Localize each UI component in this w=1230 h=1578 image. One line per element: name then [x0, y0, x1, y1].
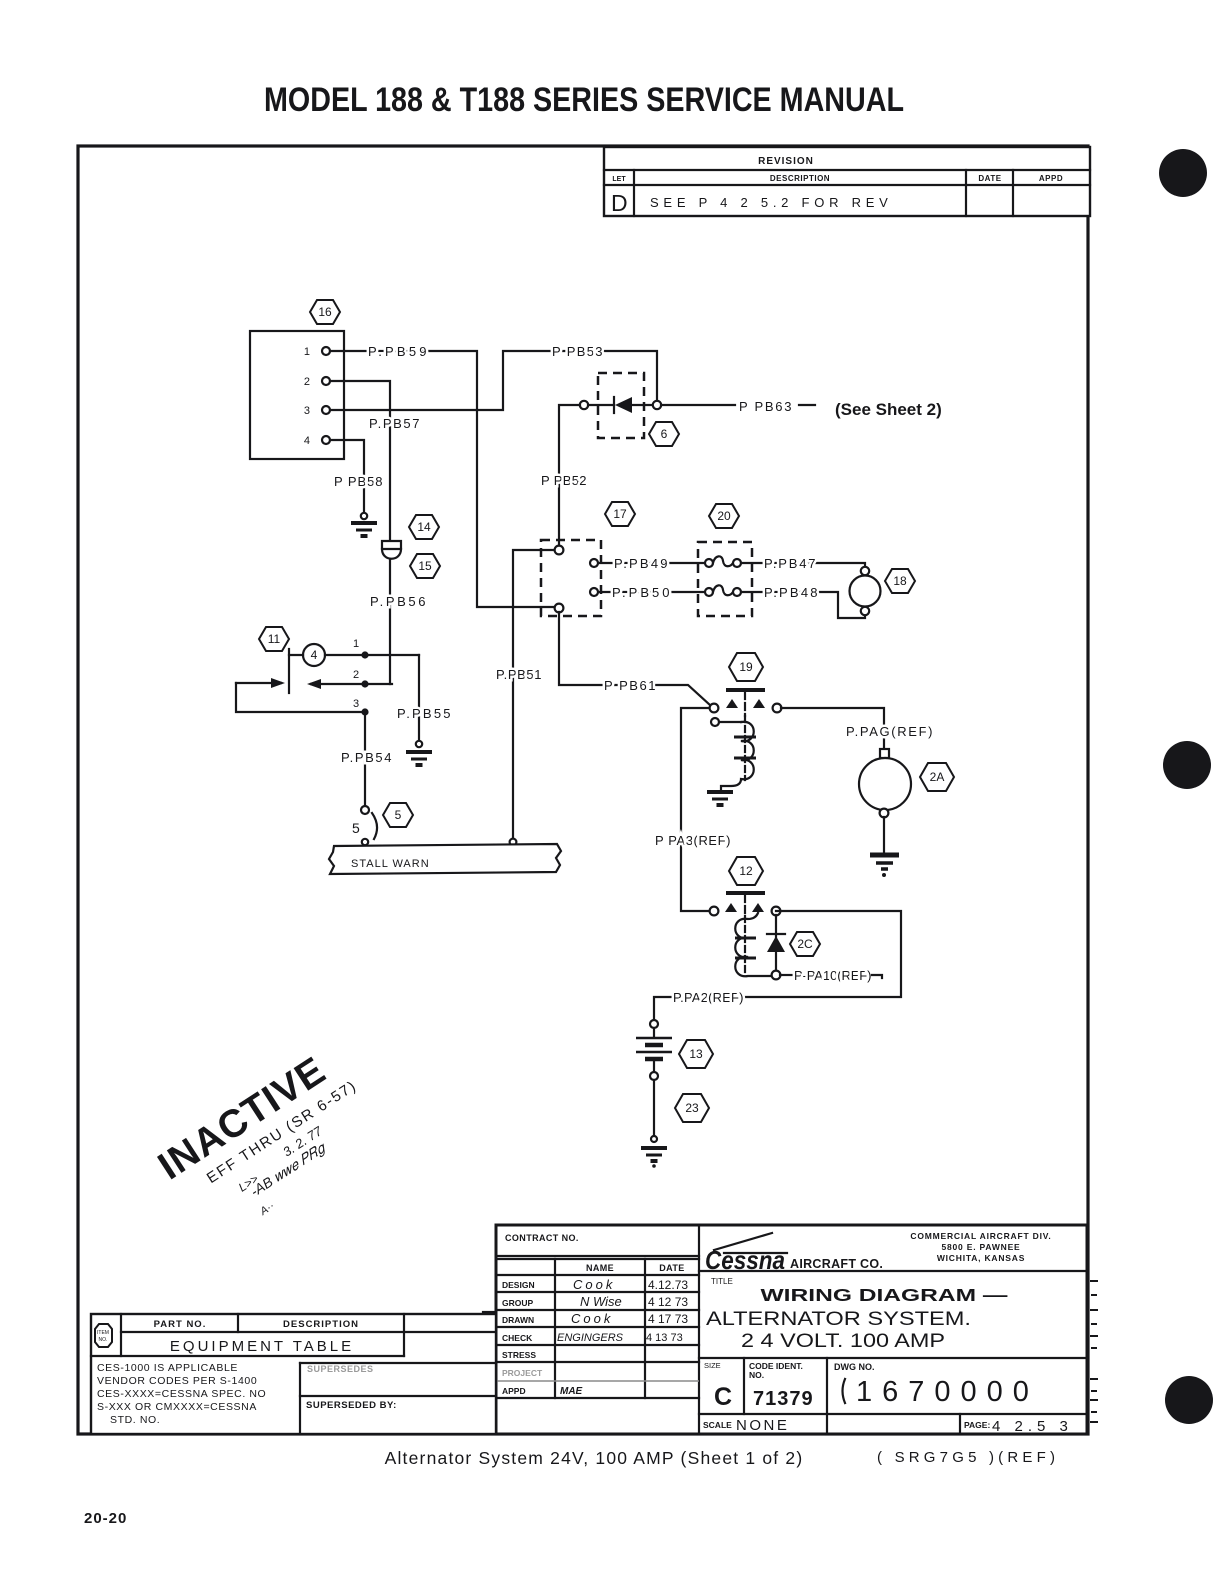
check row [502, 1332, 683, 1344]
svg-text:D: D [611, 190, 628, 216]
Cessna logo [705, 1233, 883, 1275]
svg-text:P PB61: P PB61 [604, 678, 656, 693]
switch 11 marker circle 4 [303, 644, 325, 666]
svg-text:6: 6 [661, 427, 668, 441]
title cell [706, 1277, 1008, 1352]
code ident cell [749, 1358, 827, 1414]
svg-text:DATE: DATE [659, 1263, 684, 1273]
fuse lower [705, 585, 741, 596]
svg-text:71379: 71379 [753, 1388, 814, 1410]
svg-text:P.PB56: P.PB56 [370, 594, 426, 609]
svg-text:MODEL 188 & T188 SERIES SERVIC: MODEL 188 & T188 SERIES SERVICE MANUAL [264, 81, 904, 119]
callout 5 [383, 803, 413, 827]
switch 11 arrow from terminal 2 [307, 679, 365, 689]
svg-text:20: 20 [717, 509, 731, 523]
svg-text:DESCRIPTION: DESCRIPTION [283, 1319, 359, 1330]
svg-text:DATE: DATE [978, 174, 1001, 183]
wire P-PB54 to stall warn [341, 716, 392, 806]
svg-text:2A: 2A [930, 770, 945, 784]
svg-text:REVISION: REVISION [758, 156, 814, 167]
wire P-PB52 diode to terminal block 17 [541, 405, 587, 546]
svg-text:NO.: NO. [99, 1337, 108, 1343]
stall warn pigtail contact [352, 806, 377, 845]
INACTIVE stamp [151, 1039, 390, 1251]
svg-text:CES-XXXX=CESSNA SPEC. NO: CES-XXXX=CESSNA SPEC. NO [97, 1388, 266, 1400]
diode 2C across relay 12 coil [767, 915, 785, 971]
svg-text:13: 13 [689, 1047, 703, 1061]
callout 20 [709, 504, 739, 528]
svg-text:P PA3(REF): P PA3(REF) [655, 833, 731, 848]
terminal block 17 bottom terminal [555, 604, 564, 613]
svg-text:NAME: NAME [586, 1263, 614, 1273]
diode item 6 dashed enclosure [598, 373, 644, 438]
callout 2C [790, 932, 820, 956]
svg-text:5800 E. PAWNEE: 5800 E. PAWNEE [941, 1242, 1020, 1252]
relay 19 coil ground [707, 792, 733, 805]
callout 18 [885, 569, 915, 593]
svg-text:ITEM: ITEM [97, 1330, 109, 1336]
svg-text:1670000: 1670000 [856, 1376, 1039, 1408]
relay 19 coil [721, 716, 756, 790]
svg-text:1: 1 [304, 346, 310, 358]
connector 16 callout [310, 300, 340, 324]
svg-text:SIZE: SIZE [704, 1361, 721, 1370]
relay 12 contact bar [726, 891, 765, 895]
division address [910, 1231, 1051, 1263]
cigarette lighter item 18 [850, 567, 881, 615]
relay 12 right terminal [772, 907, 781, 916]
callout 12 [729, 857, 763, 885]
svg-text:P PB52: P PB52 [541, 473, 587, 488]
filter capacitor item 14/15 [382, 541, 401, 559]
contract no cell [496, 1233, 699, 1256]
relay 12 coil terminal [772, 971, 781, 980]
svg-text:WICHITA, KANSAS: WICHITA, KANSAS [937, 1253, 1025, 1263]
diode item 6 [580, 397, 661, 413]
svg-text:4: 4 [304, 435, 310, 447]
wire P-PB61 block 17 to relay 19 [559, 612, 711, 706]
callout 14 [409, 515, 439, 539]
appd row [502, 1386, 583, 1397]
svg-text:15: 15 [418, 559, 432, 573]
svg-text:SEE P 4 2 5.2 FOR REV: SEE P 4 2 5.2 FOR REV [650, 195, 890, 210]
svg-text:23: 23 [685, 1101, 699, 1115]
callout 13 [679, 1040, 713, 1068]
relay 12 armature stem [744, 895, 746, 914]
svg-text:COMMERCIAL AIRCRAFT DIV.: COMMERCIAL AIRCRAFT DIV. [910, 1231, 1051, 1241]
switch 11 arrow left feed [236, 678, 285, 688]
switch 11 terminal 1 [325, 638, 419, 659]
svg-text:DWG NO.: DWG NO. [834, 1362, 875, 1372]
svg-text:14: 14 [417, 520, 431, 534]
svg-text:P.PB54: P.PB54 [341, 750, 392, 765]
scale cell [703, 1414, 827, 1434]
svg-text:EQUIPMENT TABLE: EQUIPMENT TABLE [170, 1338, 354, 1355]
svg-text:SUPERSEDED BY:: SUPERSEDED BY: [306, 1400, 397, 1411]
svg-text:STRESS: STRESS [502, 1350, 536, 1360]
svg-text:2 4 VOLT. 100 AMP: 2 4 VOLT. 100 AMP [741, 1331, 945, 1352]
relay 12 coil [735, 913, 770, 976]
callout 2A [920, 763, 954, 791]
equipment table [91, 1314, 496, 1434]
switch 11 terminal 3 [353, 698, 369, 716]
wire P-PB59 pin1 to terminal block 17 [330, 344, 554, 607]
binder hole top [1159, 149, 1207, 197]
svg-text:CHECK: CHECK [502, 1333, 533, 1343]
connector 16 pin 1 [304, 346, 330, 358]
callout 17 [605, 502, 635, 526]
svg-text:18: 18 [893, 574, 907, 588]
revision table [604, 147, 1090, 216]
switch 11 terminal 2 [353, 669, 392, 688]
svg-text:Cook: Cook [573, 1277, 615, 1292]
wire P-PB49 [590, 556, 704, 571]
page cell [960, 1414, 1073, 1435]
connector 16 pin 3 [304, 405, 330, 417]
wire P-PA3 relay 19 to relay 12 [655, 708, 731, 911]
wire P-PB50 [590, 585, 704, 600]
relay 19 armature stem [744, 692, 746, 716]
switch 11 callout [259, 627, 289, 651]
svg-text:3: 3 [304, 405, 310, 417]
wire P-PA10 label [780, 968, 882, 983]
svg-text:STALL WARN: STALL WARN [351, 858, 430, 870]
stall warn unit [329, 844, 561, 874]
wire P-PB51 to stall warn [496, 550, 554, 845]
svg-text:STD. NO.: STD. NO. [110, 1414, 160, 1426]
name date header [496, 1259, 699, 1398]
svg-text:PART NO.: PART NO. [154, 1319, 207, 1330]
wire P-PB48 [741, 585, 865, 618]
svg-text:DESCRIPTION: DESCRIPTION [770, 174, 830, 183]
svg-text:4 17 73: 4 17 73 [648, 1312, 688, 1326]
svg-text:P-PA10(REF): P-PA10(REF) [794, 968, 872, 983]
svg-text:P.PB57: P.PB57 [369, 416, 420, 431]
fuse upper [705, 556, 741, 567]
svg-text:SUPERSEDES: SUPERSEDES [307, 1364, 374, 1374]
svg-text:TITLE: TITLE [711, 1277, 733, 1286]
svg-text:DRAWN: DRAWN [502, 1315, 534, 1325]
relay 12 fixed contacts [725, 903, 764, 912]
connector 16 pin 4 [304, 435, 330, 447]
svg-text:ENGINGERS: ENGINGERS [557, 1332, 624, 1344]
svg-text:NO.: NO. [749, 1370, 764, 1380]
vendor codes note [97, 1362, 266, 1426]
relay 12 left terminal [710, 907, 719, 916]
svg-text:5: 5 [352, 820, 360, 836]
callout 19 [729, 653, 763, 681]
relay 19 right terminal [773, 704, 782, 713]
relay 19 coil terminal [711, 718, 741, 726]
callout 15 [410, 554, 440, 578]
svg-text:MAE: MAE [560, 1386, 583, 1397]
svg-text:2C: 2C [797, 937, 813, 951]
svg-text:WIRING DIAGRAM —: WIRING DIAGRAM — [761, 1285, 1009, 1305]
wire P-PB57 pin2 to filter [330, 381, 420, 539]
relay 19 contact bar [726, 688, 765, 692]
dwg no cell [834, 1362, 1039, 1408]
svg-text:P PB58: P PB58 [334, 474, 383, 489]
relay 19 fixed contacts [726, 699, 765, 708]
svg-text:2: 2 [353, 669, 359, 681]
wire P-PB63 to sheet 2 [661, 399, 815, 414]
binder hole bottom [1165, 1376, 1213, 1424]
svg-text:DESIGN: DESIGN [502, 1280, 535, 1290]
svg-text:Alternator System 24V, 100 AMP: Alternator System 24V, 100 AMP (Sheet 1 … [385, 1448, 804, 1468]
wire relay 12 to battery [654, 911, 901, 1020]
title block [483, 1225, 1098, 1435]
svg-text:Cook: Cook [571, 1311, 613, 1326]
supersedes cell [300, 1363, 496, 1434]
size cell [704, 1358, 744, 1414]
wire switch feed loop [236, 683, 361, 712]
svg-text:P PB53: P PB53 [552, 344, 603, 359]
svg-text:5: 5 [395, 808, 402, 822]
svg-text:P.PB51: P.PB51 [496, 667, 542, 682]
svg-text:4 12 73: 4 12 73 [648, 1295, 688, 1309]
wire P-PB58 pin4 to ground [330, 440, 383, 513]
svg-text:VENDOR CODES PER S-1400: VENDOR CODES PER S-1400 [97, 1375, 257, 1387]
svg-text:N Wise: N Wise [580, 1294, 622, 1309]
perforation ticks right edge [1090, 1281, 1098, 1422]
design row [502, 1277, 688, 1292]
item number octagon [95, 1324, 112, 1347]
svg-text:ALTERNATOR SYSTEM.: ALTERNATOR SYSTEM. [706, 1309, 971, 1330]
svg-text:19: 19 [739, 660, 753, 674]
svg-text:P.PAG(REF): P.PAG(REF) [846, 724, 933, 739]
connector 16 pin 2 [304, 376, 330, 388]
svg-text:SCALE: SCALE [703, 1420, 732, 1430]
ground at P-PB55 [406, 741, 432, 765]
wire battery to ground [653, 1080, 655, 1136]
svg-text:11: 11 [268, 632, 281, 646]
svg-text:AIRCRAFT CO.: AIRCRAFT CO. [790, 1257, 883, 1271]
binder hole middle [1163, 741, 1211, 789]
svg-text:( SRG7G5 )(REF): ( SRG7G5 )(REF) [877, 1449, 1059, 1466]
wire P-PB53 pin3 to diode [330, 344, 657, 410]
svg-text:APPD: APPD [1039, 174, 1063, 183]
wire P-PB56 filter to switch terminal 2 [370, 560, 426, 684]
svg-text:PROJECT: PROJECT [502, 1368, 543, 1378]
wire P-PB47 [741, 556, 865, 571]
svg-text:C: C [714, 1383, 732, 1411]
svg-text:GROUP: GROUP [502, 1298, 534, 1308]
svg-text:P PB63: P PB63 [739, 399, 792, 414]
relay 19 left terminal [710, 704, 719, 713]
svg-text:2: 2 [304, 376, 310, 388]
svg-text:4: 4 [311, 648, 318, 662]
alternator 2A [859, 749, 911, 852]
svg-text:PAGE:: PAGE: [964, 1420, 990, 1430]
svg-text:4.12.73: 4.12.73 [648, 1278, 688, 1292]
ground at P-PB58 [351, 513, 377, 536]
row ticks left of block [483, 1312, 496, 1396]
svg-text:LET: LET [612, 176, 626, 183]
svg-text:20-20: 20-20 [84, 1510, 127, 1527]
wire P-PAG relay 19 to alternator [781, 708, 933, 749]
superseded by cell [300, 1396, 496, 1411]
svg-text:CES-1000 IS APPLICABLE: CES-1000 IS APPLICABLE [97, 1362, 238, 1374]
svg-text:P.PB55: P.PB55 [397, 706, 451, 721]
fuse block 20 dashed enclosure [698, 542, 752, 616]
battery ground [641, 1136, 667, 1168]
svg-text:17: 17 [613, 507, 627, 521]
terminal block 17 top terminal [555, 546, 564, 555]
svg-text:NONE: NONE [736, 1417, 789, 1434]
approval rows grid [496, 1292, 699, 1398]
svg-text:16: 16 [318, 305, 332, 319]
terminal block 17 dashed enclosure [541, 540, 601, 616]
svg-text:4 13 73: 4 13 73 [646, 1332, 683, 1344]
switch 11 wiper [289, 649, 303, 693]
alternator ground [870, 855, 899, 877]
group row [502, 1294, 688, 1309]
drawn row [502, 1311, 688, 1326]
connector 16 body [250, 331, 344, 459]
svg-text:A··: A·· [257, 1200, 277, 1219]
svg-text:1: 1 [353, 638, 359, 650]
callout 6 [649, 422, 679, 446]
wire P-PB55 to ground [397, 655, 451, 741]
svg-text:3: 3 [353, 698, 359, 710]
svg-text:(See Sheet 2): (See Sheet 2) [835, 400, 942, 419]
svg-text:CONTRACT NO.: CONTRACT NO. [505, 1233, 579, 1243]
svg-text:4 2.5 3: 4 2.5 3 [992, 1418, 1073, 1435]
svg-text:APPD: APPD [502, 1386, 526, 1396]
callout 23 [675, 1094, 709, 1122]
svg-text:P.PA2(REF): P.PA2(REF) [673, 990, 744, 1005]
svg-text:S-XXX OR CMXXXX=CESSNA: S-XXX OR CMXXXX=CESSNA [97, 1401, 257, 1413]
svg-text:12: 12 [739, 864, 753, 878]
battery 13 [636, 1020, 672, 1080]
